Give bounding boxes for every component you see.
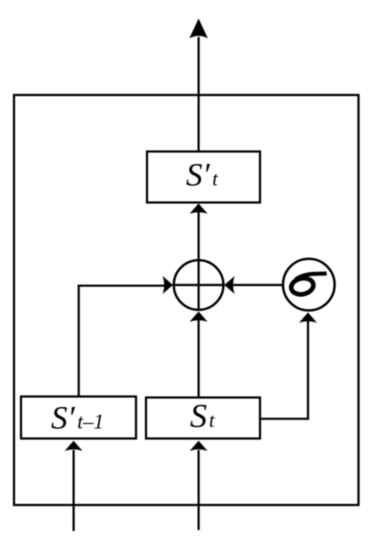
outer cell box	[14, 95, 359, 505]
wire St up to adder	[198, 316, 200, 397]
box S't	[147, 152, 260, 203]
wire adder to S't box	[198, 206, 200, 262]
arrowhead into St box	[190, 441, 208, 451]
box S't-1	[21, 397, 136, 439]
wire top output	[198, 37, 200, 152]
adder circle	[174, 260, 224, 310]
wire bottom input center	[198, 450, 200, 530]
sigma circle	[283, 259, 335, 311]
wire sigma to adder	[233, 284, 283, 286]
arrowhead into adder left	[163, 276, 173, 294]
adder plus vertical	[198, 259, 200, 311]
box St	[146, 398, 260, 439]
adder plus horizontal	[173, 284, 225, 286]
label sigma	[290, 273, 327, 296]
arrowhead into adder right	[224, 276, 234, 294]
arrowhead into S't box	[190, 204, 208, 214]
arrowhead into adder bottom	[190, 312, 208, 322]
arrowhead top output	[189, 19, 207, 39]
wire from S't-1 up and right to adder	[79, 286, 165, 397]
wire St right then up to sigma	[260, 316, 308, 419]
arrowhead into S't-1 box	[65, 441, 83, 451]
wire bottom input left	[72, 450, 74, 531]
arrowhead into sigma bottom	[299, 313, 317, 323]
